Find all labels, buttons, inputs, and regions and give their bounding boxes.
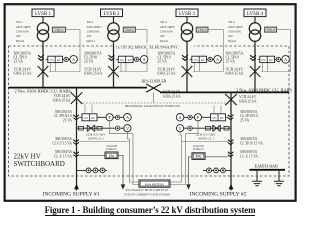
- svg-text:SWITCHBOARD: SWITCHBOARD: [14, 160, 65, 168]
- svg-text:2 Nos. 630A RHDC CU. BARS: 2 Nos. 630A RHDC CU. BARS: [15, 88, 72, 93]
- svg-text:PVC/SWA/PVC PILOT CABLES TO: PVC/SWA/PVC PILOT CABLES TO: [126, 189, 169, 192]
- cable test terminals supply 2: [203, 169, 231, 171]
- wire transformer TR-4 to bus: [254, 41, 256, 92]
- incoming supply 2 relay OC/EF: [226, 116, 229, 118]
- svg-text:22kV/400V: 22kV/400V: [87, 25, 103, 29]
- protection CT X supply 1: [73, 152, 79, 157]
- VT fuse 1 supply 1: [79, 126, 84, 130]
- svg-text:LVSB 2: LVSB 2: [103, 12, 120, 17]
- svg-text:CL X 15 VA: CL X 15 VA: [240, 154, 258, 158]
- bus right section: [160, 91, 289, 93]
- svg-text:AN: AN: [16, 34, 21, 38]
- svg-text:AN: AN: [87, 34, 92, 38]
- svg-text:23 VA: 23 VA: [84, 60, 94, 64]
- svg-text:22kV/400V: 22kV/400V: [16, 25, 32, 29]
- pilot wire relay PW supply 2: [192, 153, 205, 160]
- voltmeter supply 1: [124, 125, 131, 132]
- svg-text:TR-1: TR-1: [16, 20, 23, 24]
- incoming supply 2 VCB: [225, 94, 237, 105]
- svg-text:630A 25 kA: 630A 25 kA: [53, 99, 71, 103]
- svg-text:EARTH BAR: EARTH BAR: [255, 164, 279, 169]
- wire transformer TR-2 to bus: [113, 41, 115, 88]
- pilot cable down supply 2: [189, 157, 193, 185]
- wire tag T4 to relay: [261, 30, 291, 72]
- ground 1: [256, 171, 258, 182]
- wire LVSB 1 to transformer T1: [42, 17, 44, 24]
- meter P supply 2: [194, 114, 201, 121]
- svg-text:TR-2: TR-2: [87, 20, 94, 24]
- kWh wiring supply 2: [170, 121, 198, 185]
- ammeter A1: [70, 56, 78, 64]
- svg-text:1500 kVA: 1500 kVA: [16, 30, 30, 34]
- node LVSB 2: [101, 9, 123, 17]
- pilot wire link supply 1: [79, 154, 105, 156]
- VT supply 1: [87, 125, 95, 131]
- meter dot VT supply 1: [115, 126, 119, 130]
- svg-text:kWh METERS: kWh METERS: [145, 182, 165, 186]
- svg-text:R RELAY: R RELAY: [193, 147, 204, 151]
- svg-text:500/500/5A: 500/500/5A: [240, 110, 258, 114]
- relay OC/EF 4: [260, 56, 275, 62]
- svg-text:1 Nos. 630A RHBC CU. BARS: 1 Nos. 630A RHBC CU. BARS: [236, 88, 293, 93]
- svg-text:EF: EF: [220, 116, 224, 120]
- ammeter supply 2: [176, 114, 184, 122]
- circuit breaker VCB 2: [108, 66, 119, 77]
- svg-text:VCB 24 kV: VCB 24 kV: [53, 94, 71, 98]
- svg-text:TML3: TML3: [198, 28, 207, 32]
- wire tag T3 to relay: [193, 30, 223, 72]
- voltmeter supply 2: [177, 125, 184, 132]
- incoming supply 1 VCB: [71, 92, 83, 104]
- VT fuse 2 supply 2: [206, 126, 211, 130]
- svg-text:630A 25 kA: 630A 25 kA: [158, 72, 176, 76]
- svg-text:CL 5P10/1.0: CL 5P10/1.0: [54, 114, 72, 118]
- circuit breaker VCB 4: [250, 66, 261, 77]
- VT fuse 1 supply 2: [224, 126, 229, 130]
- svg-text:EF: EF: [201, 58, 205, 62]
- svg-text:630A 25 kA: 630A 25 kA: [163, 95, 181, 99]
- wire incoming supply 2: [230, 92, 232, 190]
- svg-text:AN: AN: [160, 34, 165, 38]
- svg-text:630A 25 kA: 630A 25 kA: [239, 100, 257, 104]
- node LVSB 4: [244, 9, 266, 17]
- cable tag box T4: [265, 27, 277, 32]
- svg-text:TML2: TML2: [125, 28, 134, 32]
- ground 2: [278, 171, 280, 182]
- wire LVSB 2 to transformer T2: [113, 17, 115, 24]
- svg-text:1500 kVA: 1500 kVA: [160, 30, 174, 34]
- svg-text:VCB 24 kV: VCB 24 kV: [239, 95, 257, 99]
- pilot wire link supply 2: [205, 156, 229, 158]
- relay OC/EF 1: [48, 56, 63, 62]
- relay OC/EF 3: [192, 56, 207, 62]
- svg-text:LVSB 1: LVSB 1: [35, 12, 52, 17]
- bus coupler VCB: [146, 84, 161, 92]
- wire LVSB 3 to transformer T3: [186, 17, 188, 24]
- svg-text:EF: EF: [57, 58, 61, 62]
- svg-text:PW: PW: [196, 154, 202, 159]
- node LVSB 3: [176, 9, 198, 17]
- wire relay risers supply 2: [213, 106, 215, 114]
- wire to meters supply 1: [97, 116, 124, 118]
- svg-text:23 VA: 23 VA: [63, 119, 73, 123]
- svg-text:1x 185 SQ MM/3C XLPE/SWA/PVC: 1x 185 SQ MM/3C XLPE/SWA/PVC: [116, 45, 179, 50]
- circuit breaker VCB 3: [182, 66, 193, 77]
- svg-text:500/300/5A: 500/300/5A: [240, 150, 258, 154]
- svg-text:500/500/5A: 500/500/5A: [55, 110, 73, 114]
- cable label: [114, 43, 194, 49]
- wire relay to meters 4: [258, 58, 260, 60]
- meter dot 4: [276, 57, 280, 61]
- svg-text:INCOMING SUPPLY #2: INCOMING SUPPLY #2: [189, 191, 246, 197]
- kWh meters box: [139, 180, 170, 187]
- node LVSB 1: [32, 9, 54, 17]
- VT row supply 1: [77, 127, 124, 129]
- cable tag box T1: [52, 27, 65, 32]
- meter dot supply 1: [115, 115, 119, 119]
- svg-text:1500 kVA: 1500 kVA: [228, 30, 242, 34]
- 22kV HV switchboard dashed enclosure: [9, 46, 290, 176]
- CT 1: [38, 55, 44, 60]
- incoming supply 2 protection CT: [228, 115, 234, 120]
- svg-text:LVSB 3: LVSB 3: [179, 12, 196, 17]
- wire incoming supply 1: [76, 88, 78, 191]
- relay OC/EF 2: [118, 56, 133, 62]
- svg-text:Dyn11: Dyn11: [87, 39, 96, 43]
- wire relay to meters 2: [116, 58, 118, 60]
- svg-text:300/300/5A: 300/300/5A: [55, 137, 73, 141]
- wire coupler to interlock: [153, 92, 155, 103]
- svg-text:TML4: TML4: [266, 28, 275, 32]
- frame border: [5, 4, 296, 201]
- transformer TR-2: [108, 23, 119, 34]
- wire tag T1 to relay: [49, 30, 80, 72]
- incoming supply 2 arrow: [229, 184, 234, 189]
- protection CT X supply 2: [228, 152, 234, 157]
- meter dot VT supply 2: [188, 126, 192, 130]
- svg-text:TR-4: TR-4: [228, 20, 235, 24]
- svg-text:Dyn11: Dyn11: [228, 39, 237, 43]
- incoming supply 1 arrow: [74, 184, 79, 189]
- cable tag box T2: [123, 27, 135, 32]
- svg-text:CL 5P10 15 VA: CL 5P10 15 VA: [240, 142, 263, 146]
- ammeter supply 1: [124, 114, 132, 122]
- pilot wire relay PW supply 1: [105, 152, 118, 159]
- svg-text:EF: EF: [128, 58, 132, 62]
- interlock dashed link: [77, 102, 232, 104]
- VT row supply 2: [184, 127, 231, 129]
- wire transformer TR-1 to bus: [42, 41, 44, 88]
- svg-text:300/300/5A: 300/300/5A: [240, 137, 258, 141]
- svg-text:630A 25 kA: 630A 25 kA: [226, 72, 244, 76]
- cable test terminals supply 1: [77, 169, 108, 171]
- circuit breaker VCB 1: [38, 66, 49, 77]
- svg-text:22kV/400V: 22kV/400V: [160, 25, 176, 29]
- meter dot supply 2: [188, 115, 192, 119]
- VT supply 2: [213, 125, 221, 131]
- svg-text:200VA CL 1: 200VA CL 1: [198, 137, 214, 141]
- meter dot 3: [208, 57, 212, 61]
- wire transformer TR-3 to bus: [186, 41, 188, 92]
- wire to meters supply 2: [184, 116, 211, 118]
- svg-text:BUS-COUPLER: BUS-COUPLER: [142, 80, 167, 84]
- svg-text:630A 25 kA: 630A 25 kA: [14, 72, 32, 76]
- svg-text:CL 0.5 15 VA: CL 0.5 15 VA: [52, 142, 72, 146]
- svg-text:630A 25 kA: 630A 25 kA: [84, 72, 102, 76]
- svg-text:R RELAY: R RELAY: [106, 147, 117, 151]
- svg-text:500/300/5A: 500/300/5A: [55, 150, 73, 154]
- meter dot 2: [135, 57, 139, 61]
- svg-text:TR-3: TR-3: [160, 20, 167, 24]
- kWh wiring supply 1: [110, 121, 139, 185]
- svg-text:1500 kVA: 1500 kVA: [87, 30, 101, 34]
- svg-text:200VA CL 1: 200VA CL 1: [88, 137, 104, 141]
- ammeter A3: [214, 56, 222, 64]
- CT 2: [109, 55, 115, 60]
- svg-text:CL 5P10/1.0: CL 5P10/1.0: [240, 114, 258, 118]
- svg-text:25 VA: 25 VA: [240, 119, 250, 123]
- caption: [0, 205, 300, 215]
- svg-text:Dyn11: Dyn11: [160, 39, 169, 43]
- svg-text:LVSB 4: LVSB 4: [247, 12, 264, 17]
- CT 4: [250, 55, 256, 60]
- svg-text:MECHANICAL & ELECTRICAL INTERL: MECHANICAL & ELECTRICAL INTERLOCK: [125, 104, 181, 108]
- meter dot 1: [64, 57, 68, 61]
- metering CT supply 1: [73, 140, 79, 145]
- svg-text:UTILITY COMPANY’S SUB STATION: UTILITY COMPANY’S SUB STATION: [124, 193, 170, 196]
- svg-text:EF: EF: [269, 58, 273, 62]
- svg-text:PW: PW: [109, 153, 115, 158]
- wire tag T2 to relay: [120, 30, 148, 72]
- ammeter A4: [282, 56, 290, 64]
- cable tag box T3: [196, 27, 208, 32]
- pilot cable down supply 1: [118, 155, 123, 185]
- metering CT supply 2: [228, 140, 234, 145]
- svg-text:CL X 15 VA: CL X 15 VA: [54, 154, 72, 158]
- VT fuse 2 supply 1: [97, 126, 102, 130]
- svg-text:Dyn11: Dyn11: [16, 39, 25, 43]
- transformer TR-3: [181, 23, 192, 34]
- transformer TR-4: [249, 23, 260, 34]
- wire relay to meters 3: [190, 58, 192, 60]
- svg-text:25 VA: 25 VA: [226, 60, 236, 64]
- svg-text:23 VA: 23 VA: [14, 60, 24, 64]
- incoming supply 1 protection CT: [73, 115, 79, 120]
- svg-text:AN: AN: [228, 34, 233, 38]
- bus left section: [9, 87, 148, 89]
- svg-text:EF: EF: [91, 116, 95, 120]
- transformer TR-1: [37, 23, 48, 34]
- svg-text:TML1: TML1: [55, 28, 64, 32]
- wire LVSB 4 to transformer T4: [254, 17, 256, 24]
- ammeter A2: [140, 56, 148, 64]
- wire relay to meters 1: [46, 58, 48, 60]
- earth bar: [250, 169, 286, 171]
- wire relay risers supply 1: [84, 105, 86, 114]
- svg-text:22kV/400V: 22kV/400V: [228, 25, 244, 29]
- CT 3: [182, 55, 188, 60]
- svg-text:INCOMING SUPPLY #1: INCOMING SUPPLY #1: [42, 191, 99, 197]
- incoming supply 1 relay OC/EF: [79, 116, 82, 118]
- meter P supply 1: [106, 114, 113, 121]
- svg-text:25 VA: 25 VA: [158, 60, 168, 64]
